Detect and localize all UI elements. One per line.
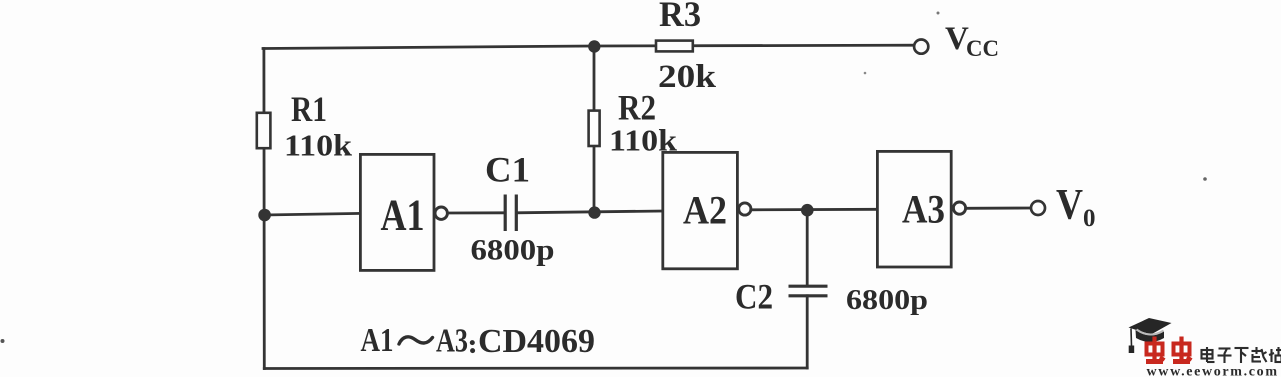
junction node top (R2/R3) [588, 40, 600, 52]
svg-text:C2: C2 [735, 277, 773, 317]
junction node R2 bottom [588, 206, 600, 218]
wire C1 to A2 input [517, 211, 664, 213]
junction node left (A1 input) [258, 209, 271, 222]
wire A3 output to V0 [965, 207, 1031, 210]
wire left vertical [262, 49, 265, 369]
scan speck mid [864, 72, 867, 75]
wire bottom feedback [264, 367, 807, 370]
wire A1 output to C1 [447, 211, 505, 214]
watermark 电子下载站 (dark glyph blocks) [1202, 347, 1281, 363]
scan speck right [1203, 177, 1207, 181]
resistor R2 [589, 111, 600, 146]
terminal Vcc [914, 40, 928, 54]
svg-text:A3: A3 [902, 187, 945, 232]
wire A2 output to A3 input [751, 208, 879, 211]
svg-text:CC: CC [966, 36, 999, 61]
svg-text:6800p: 6800p [846, 284, 928, 316]
svg-text:20k: 20k [658, 59, 717, 95]
svg-text:R1: R1 [291, 89, 327, 129]
inverter gate A1 (CD4069) [360, 154, 447, 270]
resistor R3 [656, 41, 693, 52]
svg-text:A2: A2 [683, 188, 727, 233]
capacitor C2 [789, 286, 828, 296]
note A1~A3:CD4069 [361, 322, 596, 360]
svg-text:6800p: 6800p [471, 234, 555, 267]
svg-text:www.eeworm.com: www.eeworm.com [1147, 365, 1278, 377]
resistor R1 [257, 113, 271, 148]
svg-text:R3: R3 [659, 0, 701, 34]
wire C2 stem lower [806, 296, 809, 368]
svg-text:0: 0 [1083, 205, 1096, 232]
wire R2 stem [593, 46, 596, 213]
scan speck above Vcc [937, 12, 940, 15]
svg-text:CD4069: CD4069 [478, 323, 595, 360]
下 [1235, 347, 1249, 349]
svg-text:R2: R2 [618, 88, 656, 128]
scan speck left bottom [1, 339, 5, 343]
junction node C2 top [801, 204, 814, 217]
wire C2 stem upper [806, 210, 809, 286]
svg-text:110k: 110k [284, 128, 353, 163]
wire node A1 input [264, 213, 361, 215]
wire top rail [263, 45, 920, 48]
svg-text:A1: A1 [381, 191, 425, 240]
站 [1270, 349, 1272, 362]
电 [1202, 350, 1213, 359]
watermark 虫 (second, red) [1173, 337, 1192, 362]
svg-text:V: V [1056, 182, 1083, 229]
watermark 虫 (first, red) [1146, 337, 1165, 362]
inverter gate A2 (CD4069) [663, 152, 751, 268]
svg-text:A3: A3 [436, 323, 468, 360]
inverter gate A3 (CD4069) [877, 151, 965, 267]
watermark logo: graduation cap [1129, 318, 1172, 353]
子 [1219, 347, 1231, 349]
svg-text:A1: A1 [361, 322, 394, 359]
svg-text:C1: C1 [485, 150, 530, 190]
载 [1252, 350, 1264, 352]
terminal V0 [1031, 201, 1045, 215]
capacitor C1 [505, 195, 516, 232]
